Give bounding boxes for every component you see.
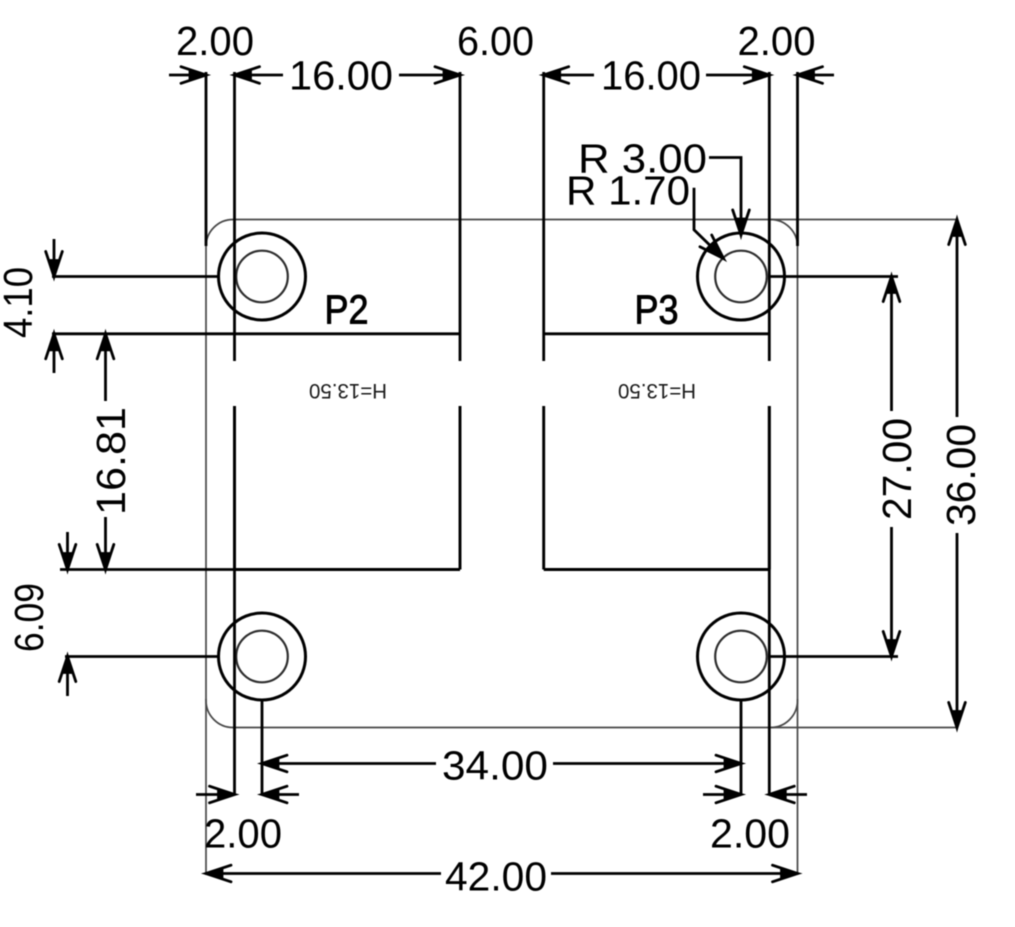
svg-text:6.00: 6.00	[457, 18, 534, 64]
radius callout R 1.70	[566, 168, 729, 265]
svg-text:16.00: 16.00	[289, 53, 393, 99]
board bottom edge extension to 36.00 dim	[771, 727, 957, 729]
ext line P3 left edge top	[542, 72, 545, 361]
ext line board-left top	[205, 72, 208, 246]
dimension 36.00 right	[938, 220, 984, 728]
board outline (grey rounded rectangle)	[206, 220, 798, 728]
ext line board-right top	[796, 72, 799, 246]
svg-text:R 1.70: R 1.70	[566, 168, 690, 214]
dimension 4.10 left	[0, 239, 62, 373]
left hole center line bottom	[65, 655, 219, 658]
svg-text:H=13.50: H=13.50	[309, 379, 387, 402]
hole P3 outer circle	[698, 233, 785, 320]
svg-text:2.00: 2.00	[176, 18, 254, 64]
dimension 6.09 left	[6, 532, 76, 696]
svg-text:34.00: 34.00	[442, 743, 548, 789]
svg-text:2.00: 2.00	[204, 811, 282, 857]
right hole center line top	[770, 275, 898, 278]
svg-text:2.00: 2.00	[738, 18, 816, 64]
dimension 42.00 bottom	[206, 854, 798, 900]
svg-text:6.09: 6.09	[6, 583, 52, 652]
hole P2 outer circle	[219, 233, 306, 320]
extension lines (black)	[52, 72, 898, 795]
ext line square-left bottom	[233, 406, 236, 795]
ext line square bottom edges left	[60, 568, 235, 571]
board top edge extension to 36.00 dim	[771, 219, 957, 221]
ext line P3 right edge top	[768, 72, 771, 361]
svg-text:42.00: 42.00	[445, 854, 547, 900]
dimension 27.00 right	[874, 277, 920, 657]
svg-text:4.10: 4.10	[0, 267, 41, 338]
dimension 2.00 top-right	[738, 18, 835, 83]
bottom-left hole outer circle	[219, 613, 306, 700]
dimension 16.00 top-left	[235, 53, 461, 99]
dimension 16.00 top-right	[544, 53, 770, 99]
dimension 2.00 bottom-right	[703, 786, 807, 856]
svg-text:P3: P3	[635, 287, 679, 333]
connector P3 body outline (square)	[544, 334, 770, 570]
right hole center line bottom	[770, 655, 898, 658]
ext line square top edges left	[52, 332, 235, 335]
svg-text:P2: P2	[325, 287, 369, 333]
ext line right hole center bottom	[740, 700, 743, 795]
svg-text:16.81: 16.81	[88, 407, 134, 515]
board left edge extension down to 42.00 dim	[205, 699, 207, 875]
board right edge extension down to 42.00 dim	[797, 699, 799, 875]
connector P2 body outline (square)	[235, 334, 461, 570]
svg-text:H=13.50: H=13.50	[618, 379, 696, 402]
dimension 34.00 bottom	[262, 743, 741, 789]
dimension 2.00 bottom-left	[196, 786, 299, 856]
svg-text:2.00: 2.00	[710, 811, 790, 857]
bottom-right hole outer circle	[698, 613, 785, 700]
radius callout R 3.00	[578, 136, 749, 236]
ext line square-left top	[233, 72, 236, 361]
svg-text:16.00: 16.00	[601, 53, 701, 99]
dimension 2.00 top-left	[169, 18, 254, 83]
svg-text:36.00: 36.00	[938, 424, 984, 526]
ext line P3 right edge bottom	[768, 406, 771, 795]
dimension 16.81 left	[88, 334, 134, 570]
hole P3 inner circle	[715, 251, 767, 303]
left hole center line top	[52, 275, 219, 278]
hole P2 inner circle	[236, 251, 288, 303]
svg-text:27.00: 27.00	[874, 418, 920, 520]
ext line left hole center bottom	[261, 700, 264, 795]
bottom-right hole inner circle	[715, 631, 767, 683]
ext line P2 right edge top	[459, 72, 462, 361]
bottom-left hole inner circle	[236, 631, 288, 683]
